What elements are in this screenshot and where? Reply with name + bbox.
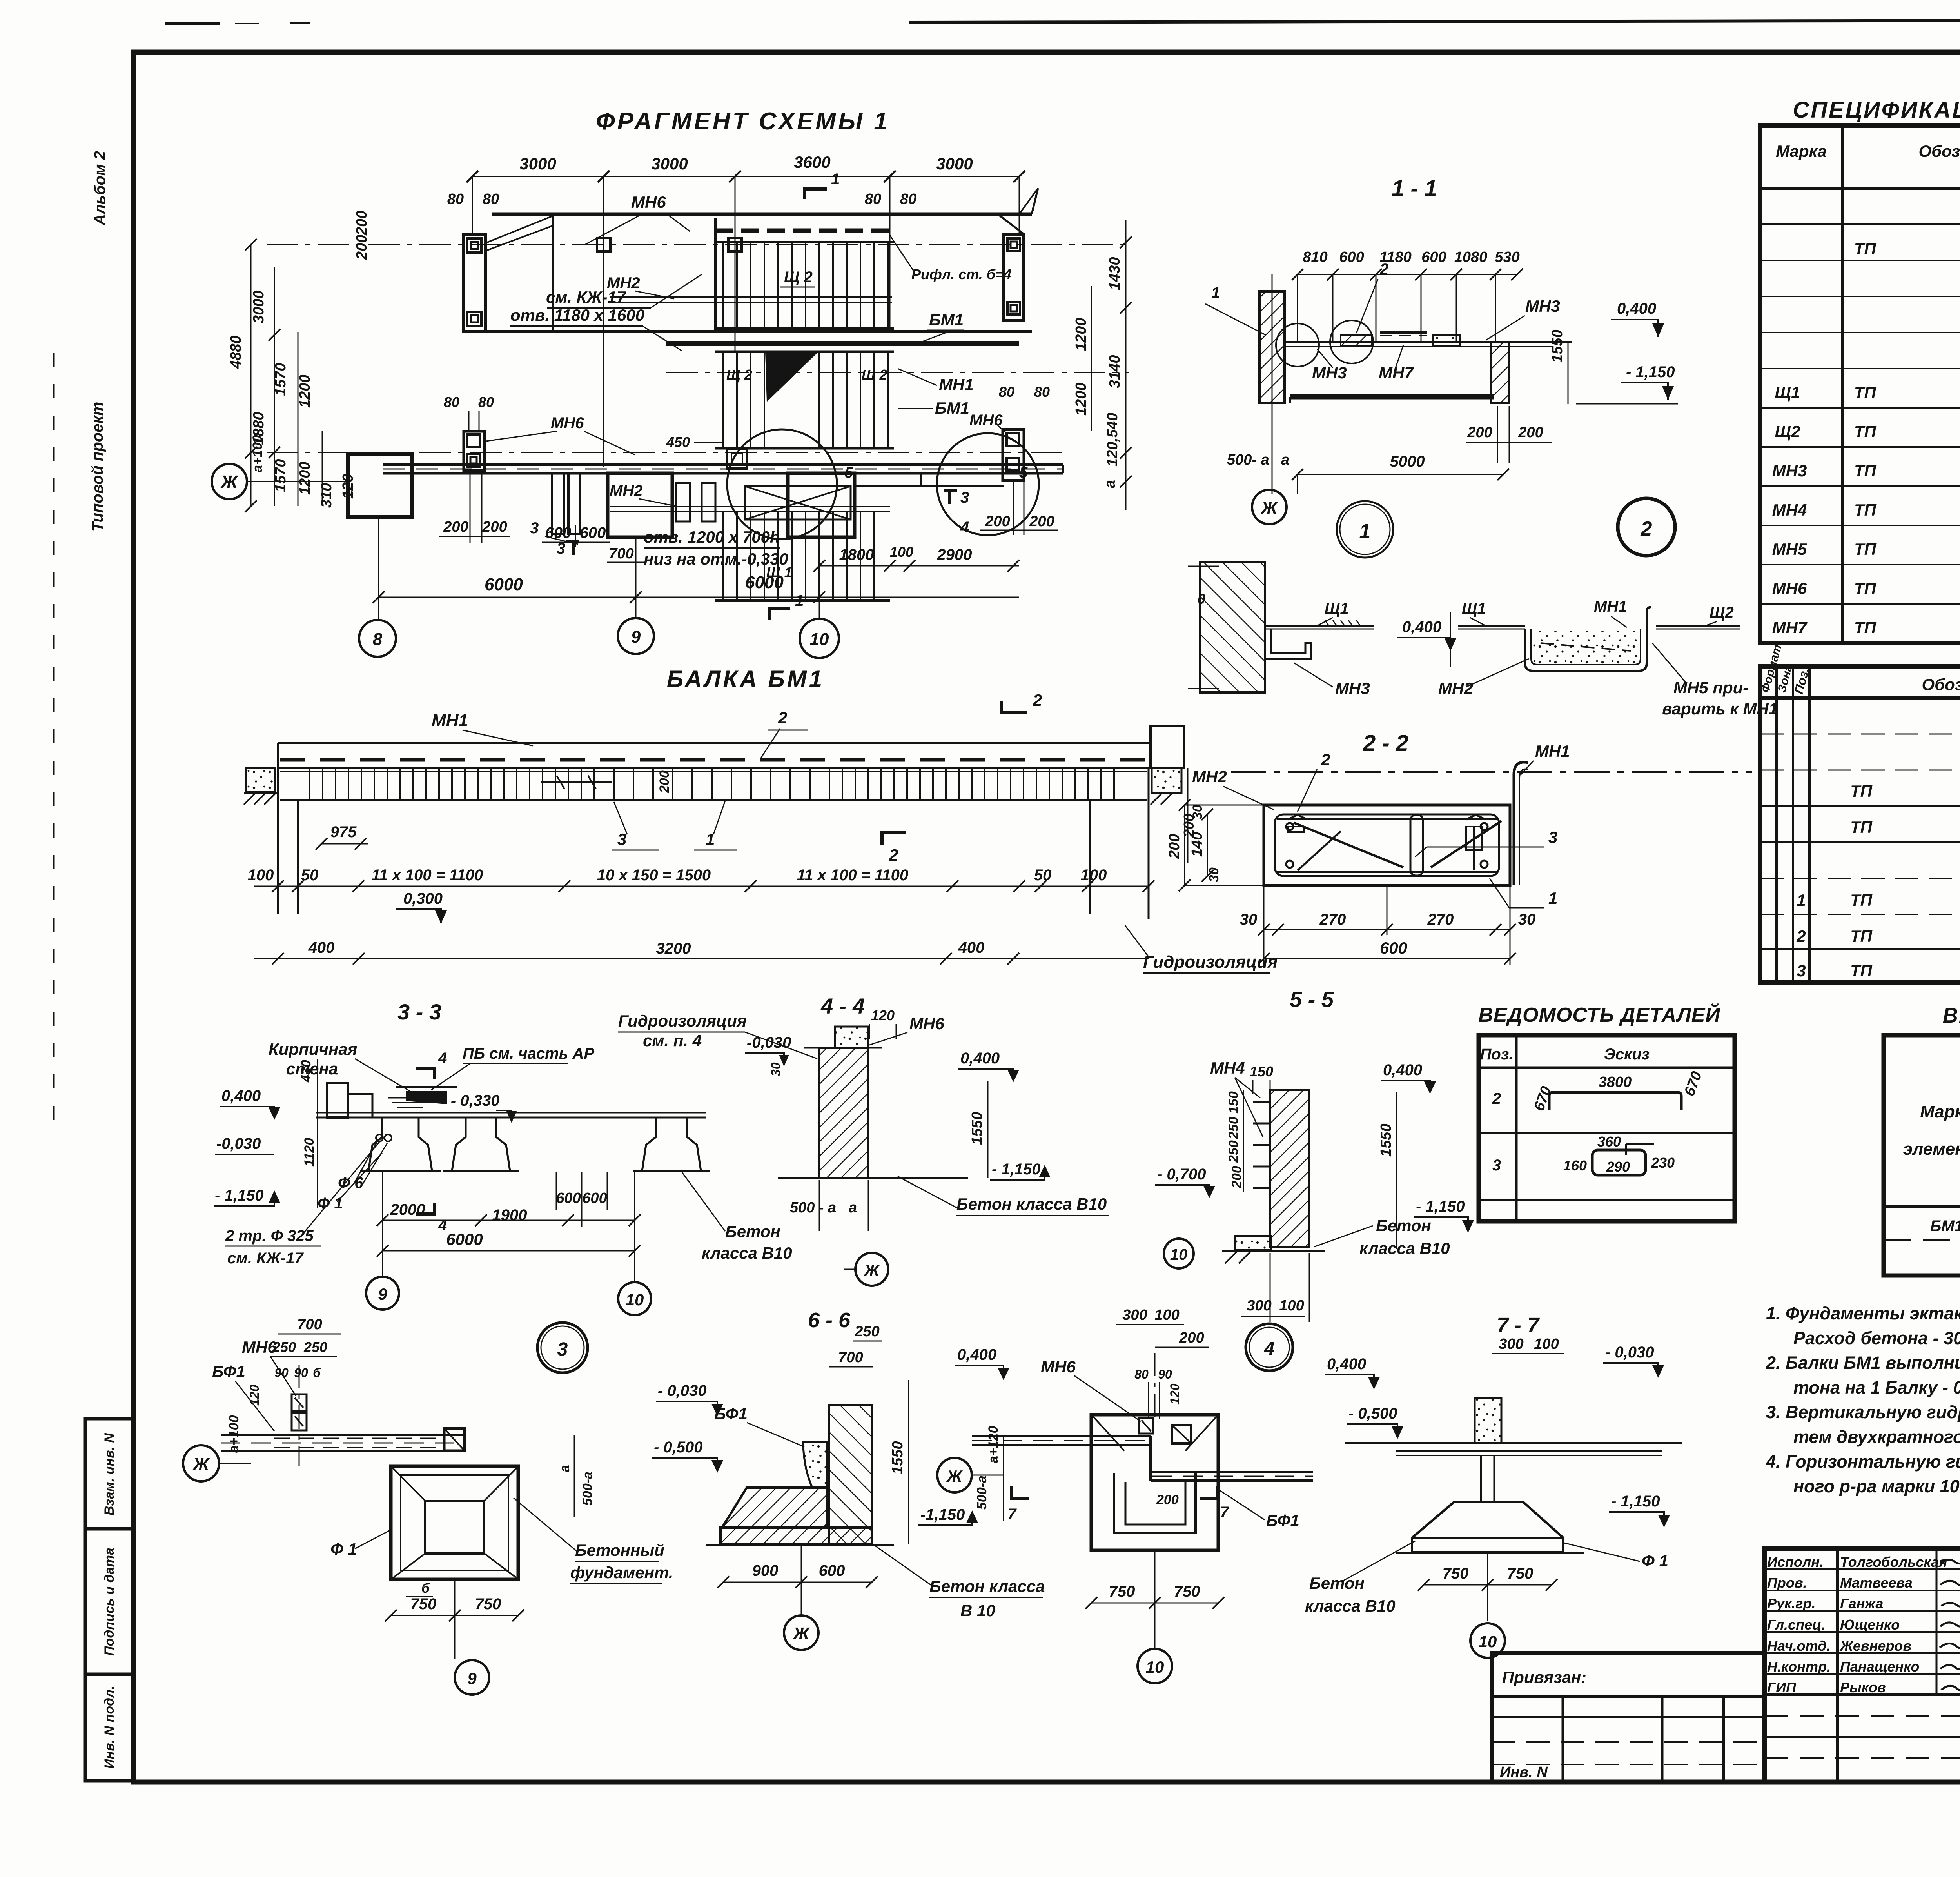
svg-text:Щ2: Щ2 xyxy=(1775,422,1800,441)
3-3 wall pieces above floor xyxy=(327,1083,348,1117)
svg-text:1: 1 xyxy=(795,592,804,609)
svg-text:2: 2 xyxy=(889,846,898,864)
svg-text:- 1,150: - 1,150 xyxy=(992,1161,1041,1178)
svg-text:тона на 1 Балку - 0,38 м³: тона на 1 Балку - 0,38 м³ xyxy=(1793,1377,1960,1397)
svg-text:ФРАГМЕНТ СХЕМЫ 1: ФРАГМЕНТ СХЕМЫ 1 xyxy=(596,108,890,135)
svg-text:ТП: ТП xyxy=(1850,782,1873,800)
svg-text:ТП: ТП xyxy=(1854,579,1877,598)
svg-text:ТП: ТП xyxy=(1850,961,1873,980)
axis Zh circle detail A xyxy=(183,1445,219,1481)
svg-text:б: б xyxy=(421,1581,430,1596)
svg-text:МН3: МН3 xyxy=(1312,363,1347,382)
right steps xyxy=(855,485,1004,487)
svg-text:Гл.спец.: Гл.спец. xyxy=(1767,1617,1825,1633)
svg-text:0,400: 0,400 xyxy=(1383,1061,1422,1079)
svg-text:100: 100 xyxy=(248,867,274,884)
svg-text:Толгобольская: Толгобольская xyxy=(1840,1554,1947,1570)
svg-text:200: 200 xyxy=(657,770,672,793)
anchor plates pair xyxy=(292,1394,307,1411)
svg-text:Н.контр.: Н.контр. xyxy=(1767,1659,1831,1675)
lower-right pier xyxy=(1003,429,1024,480)
svg-text:4: 4 xyxy=(438,1050,447,1067)
svg-text:6 - 6: 6 - 6 xyxy=(808,1308,851,1332)
svg-text:Обозначение: Обозначение xyxy=(1918,142,1960,160)
svg-text:класса В10: класса В10 xyxy=(702,1244,792,1262)
svg-text:100: 100 xyxy=(890,544,913,560)
foundation square detail A xyxy=(391,1466,518,1579)
svg-text:30: 30 xyxy=(1518,911,1536,928)
mid panels with wedge xyxy=(715,351,894,353)
parapet block xyxy=(835,1027,868,1048)
svg-text:Ж: Ж xyxy=(946,1467,963,1485)
svg-text:50: 50 xyxy=(1034,867,1052,884)
svg-text:360: 360 xyxy=(1597,1134,1621,1150)
svg-text:0,400: 0,400 xyxy=(957,1346,996,1363)
svg-text:10: 10 xyxy=(1170,1246,1188,1263)
svg-text:Бетон класса В10: Бетон класса В10 xyxy=(956,1195,1107,1213)
svg-text:ТП: ТП xyxy=(1854,618,1877,637)
detail 2 sketch: bent bar 3800 with 670 hooks xyxy=(1549,1092,1681,1110)
svg-text:Ганжа: Ганжа xyxy=(1840,1595,1883,1612)
left fold dashed line xyxy=(53,353,55,1137)
svg-text:2: 2 xyxy=(1796,927,1806,945)
svg-text:700: 700 xyxy=(609,545,633,562)
svg-text:0: 0 xyxy=(1198,591,1205,607)
svg-text:3000: 3000 xyxy=(519,154,556,173)
svg-text:430: 430 xyxy=(299,1060,314,1083)
svg-text:200: 200 xyxy=(482,519,507,535)
svg-text:300: 300 xyxy=(1122,1307,1147,1323)
dims 1800 100 2900 xyxy=(819,565,1019,567)
svg-text:9: 9 xyxy=(467,1669,477,1688)
detail circle 2 xyxy=(1618,498,1675,556)
svg-text:класса В10: класса В10 xyxy=(1359,1239,1450,1257)
floor band lower-right detail C xyxy=(1151,1471,1313,1473)
svg-text:Ж: Ж xyxy=(864,1261,880,1279)
section 7 cut marks xyxy=(1010,1486,1013,1500)
anchor plates detail C xyxy=(1139,1418,1153,1434)
svg-text:750: 750 xyxy=(1109,1583,1135,1600)
svg-text:9: 9 xyxy=(378,1285,387,1303)
svg-text:50: 50 xyxy=(301,867,319,884)
svg-text:750: 750 xyxy=(1507,1565,1534,1582)
svg-text:Ж: Ж xyxy=(1261,498,1278,518)
svg-text:Щ2: Щ2 xyxy=(1710,604,1734,621)
svg-text:100: 100 xyxy=(1081,867,1107,884)
dims 2000 / 1900 / 600 600 xyxy=(383,1220,635,1221)
axis circle 9 detail A xyxy=(454,1579,456,1659)
svg-text:Щ 2: Щ 2 xyxy=(784,269,813,286)
shelf with Shch1 xyxy=(1265,625,1374,627)
small stubs xyxy=(676,483,690,521)
svg-text:80: 80 xyxy=(483,191,499,207)
svg-text:600: 600 xyxy=(1339,249,1364,265)
beam cross-section box xyxy=(1264,805,1510,885)
beam axis dash-dot at y950 xyxy=(666,372,1129,373)
axis circle 10 detail D xyxy=(1487,1553,1488,1621)
axis circle 10 of 5-5 xyxy=(1164,1239,1194,1268)
svg-text:200: 200 xyxy=(354,211,370,236)
svg-text:ТП: ТП xyxy=(1850,927,1873,945)
column axis circles 8 9 10 xyxy=(378,517,379,620)
svg-text:ТП: ТП xyxy=(1854,540,1877,558)
svg-text:3: 3 xyxy=(960,489,969,506)
svg-text:0,400: 0,400 xyxy=(1402,618,1441,636)
svg-text:7: 7 xyxy=(1220,1504,1229,1521)
wall 4-4 hatched xyxy=(819,1048,868,1178)
svg-text:МН1: МН1 xyxy=(1594,598,1627,615)
middle axis dash-dot xyxy=(267,452,1066,453)
section cut 1 bottom xyxy=(768,607,771,620)
foundation square detail C xyxy=(1091,1415,1218,1550)
svg-text:МН3: МН3 xyxy=(1525,297,1560,315)
svg-text:900: 900 xyxy=(752,1562,779,1579)
beam top flange xyxy=(278,742,1149,744)
wall footing 5-5 xyxy=(1235,1236,1271,1250)
svg-text:МН2: МН2 xyxy=(607,274,640,292)
svg-text:1200: 1200 xyxy=(1073,318,1089,351)
svg-text:Жевнеров: Жевнеров xyxy=(1839,1638,1911,1654)
svg-text:класса В10: класса В10 xyxy=(1305,1597,1396,1615)
svg-text:МН6: МН6 xyxy=(631,193,666,211)
svg-text:Рыков: Рыков xyxy=(1840,1679,1886,1695)
svg-text:- 1,150: - 1,150 xyxy=(215,1187,264,1204)
svg-text:80: 80 xyxy=(900,191,916,207)
right pier xyxy=(1004,234,1024,320)
svg-text:Марка: Марка xyxy=(1920,1102,1960,1121)
svg-text:200: 200 xyxy=(1156,1492,1179,1507)
svg-text:80: 80 xyxy=(1034,384,1050,400)
svg-text:- 0,030: - 0,030 xyxy=(1605,1344,1654,1361)
svg-text:БФ1: БФ1 xyxy=(212,1362,245,1381)
svg-text:МН6: МН6 xyxy=(1041,1357,1076,1376)
svg-text:3200: 3200 xyxy=(656,940,691,957)
svg-text:1550: 1550 xyxy=(889,1441,906,1474)
svg-text:- 0,330: - 0,330 xyxy=(451,1092,500,1109)
svg-text:- 0,700: - 0,700 xyxy=(1157,1166,1206,1183)
svg-text:ТП: ТП xyxy=(1854,239,1877,258)
svg-text:МН6: МН6 xyxy=(1772,579,1807,598)
axis circle Zh 6-6 xyxy=(801,1545,802,1615)
svg-text:Ф 1: Ф 1 xyxy=(1642,1552,1668,1570)
footing 6-6 xyxy=(722,1488,827,1528)
opening rect with cross xyxy=(745,486,851,520)
svg-text:3000: 3000 xyxy=(651,154,688,173)
main stamp outline xyxy=(1765,1548,1960,1782)
svg-text:Ж: Ж xyxy=(793,1624,810,1643)
pedestal P2 xyxy=(452,1118,510,1171)
top rebar line xyxy=(280,771,1147,772)
lower-left pier xyxy=(464,431,485,471)
svg-text:2: 2 xyxy=(1321,750,1330,769)
svg-text:Расход бетона - 30,5 м³: Расход бетона - 30,5 м³ xyxy=(1793,1328,1960,1348)
Zh circle 4-4 xyxy=(855,1253,888,1286)
floor line 4-4 xyxy=(778,1177,968,1179)
svg-text:ТП: ТП xyxy=(1850,891,1873,909)
svg-text:2: 2 xyxy=(778,709,787,727)
svg-text:ГИП: ГИП xyxy=(1767,1679,1797,1695)
svg-text:750: 750 xyxy=(475,1595,501,1613)
svg-text:МН2: МН2 xyxy=(610,482,642,500)
svg-text:3 - 3: 3 - 3 xyxy=(397,999,441,1024)
svg-text:1430: 1430 xyxy=(1107,257,1123,290)
svg-text:90: 90 xyxy=(1158,1367,1172,1381)
svg-text:отв. 1200 х 700h: отв. 1200 х 700h xyxy=(644,528,780,546)
sidebar box: Инв. N подл. xyxy=(85,1674,133,1781)
BF1 wedge block xyxy=(803,1442,827,1488)
svg-text:1120: 1120 xyxy=(302,1138,317,1167)
concrete trough xyxy=(1525,629,1647,671)
750 750 dims detail C xyxy=(1091,1603,1218,1604)
svg-text:МН2: МН2 xyxy=(1192,767,1227,786)
svg-text:Бетонный: Бетонный xyxy=(575,1541,664,1559)
svg-text:120: 120 xyxy=(247,1385,261,1406)
svg-text:30: 30 xyxy=(1190,805,1205,819)
svg-text:Ж: Ж xyxy=(220,472,239,492)
svg-text:30: 30 xyxy=(769,1062,783,1076)
svg-text:5000: 5000 xyxy=(1390,453,1425,470)
svg-text:750: 750 xyxy=(410,1595,437,1613)
section cut 2 bottom xyxy=(880,831,884,845)
svg-text:140: 140 xyxy=(1189,832,1205,857)
svg-text:4: 4 xyxy=(1264,1339,1275,1359)
corner bar dots xyxy=(1286,823,1293,830)
svg-text:0,300: 0,300 xyxy=(403,890,443,907)
svg-text:ВЕДОМОСТЬ ДЕТАЛЕЙ: ВЕДОМОСТЬ ДЕТАЛЕЙ xyxy=(1478,1003,1720,1027)
svg-text:см. п. 4: см. п. 4 xyxy=(643,1031,702,1050)
svg-text:1 - 1: 1 - 1 xyxy=(1392,176,1437,201)
DETAIL 2 drawing xyxy=(1458,625,1525,627)
svg-text:4 - 4: 4 - 4 xyxy=(820,994,865,1018)
svg-text:200: 200 xyxy=(1029,513,1054,530)
privyazan table xyxy=(1492,1653,1765,1782)
right foundation xyxy=(788,473,855,537)
pedestal P3 xyxy=(642,1118,701,1171)
svg-text:3140: 3140 xyxy=(1107,355,1123,388)
MN1 bent plate right xyxy=(1514,762,1528,885)
left web leg xyxy=(277,768,279,914)
900 600 dims 6-6 xyxy=(723,1582,872,1583)
svg-text:ного р-ра марки 100 состава: ного р-ра марки 100 состава 1:2 с гидроф… xyxy=(1793,1476,1960,1496)
axis Zh circle detail C xyxy=(937,1458,972,1492)
svg-text:а: а xyxy=(1281,452,1289,468)
svg-text:ТП: ТП xyxy=(1850,818,1873,836)
svg-text:Рифл. ст. б=4: Рифл. ст. б=4 xyxy=(911,266,1011,282)
sidebar box: Взам. инв. N xyxy=(85,1419,133,1529)
svg-text:250: 250 xyxy=(1226,1140,1241,1163)
svg-text:310: 310 xyxy=(318,483,335,508)
svg-text:3: 3 xyxy=(1797,961,1806,980)
axis Zh circle xyxy=(212,464,247,499)
svg-text:100: 100 xyxy=(1534,1336,1559,1352)
svg-text:6000: 6000 xyxy=(745,573,784,592)
svg-text:тем двухкратного покрытия: тем двухкратного покрытия горячим битумо… xyxy=(1793,1427,1960,1447)
300 100 dims 5-5 xyxy=(1241,1316,1305,1317)
svg-text:б: б xyxy=(313,1366,321,1380)
svg-text:10: 10 xyxy=(1479,1632,1497,1651)
svg-text:1550: 1550 xyxy=(1378,1123,1394,1157)
small column square xyxy=(727,449,747,469)
svg-text:2000: 2000 xyxy=(390,1201,425,1218)
svg-text:270: 270 xyxy=(1427,911,1454,928)
svg-text:0,400: 0,400 xyxy=(1327,1356,1366,1373)
bottom rebar line xyxy=(280,799,1147,801)
svg-text:отв. 1180 х 1600: отв. 1180 х 1600 xyxy=(510,306,644,324)
MN1 plate dashed xyxy=(280,758,1147,762)
svg-text:МН6: МН6 xyxy=(242,1338,277,1356)
left foundation rectangle xyxy=(348,454,412,517)
svg-text:3: 3 xyxy=(617,830,626,849)
left brick wall hatched xyxy=(1259,291,1285,403)
section 3 cut marks xyxy=(572,541,575,555)
svg-text:450: 450 xyxy=(666,434,690,450)
svg-text:ВЕДОМОСТЬ РАСХОДА СТАЛИ НА: ВЕДОМОСТЬ РАСХОДА СТАЛИ НА ЭЛЕМЕНТ, КГ xyxy=(1943,1004,1960,1027)
svg-text:Нач.отд.: Нач.отд. xyxy=(1767,1638,1830,1654)
wall 6-6 hatched xyxy=(829,1405,872,1544)
svg-text:- 0,030: - 0,030 xyxy=(658,1382,707,1399)
svg-text:см. КЖ-17: см. КЖ-17 xyxy=(227,1250,304,1267)
scan top edge line xyxy=(909,20,1960,22)
svg-text:2. Балки БМ1 выполнить из: 2. Балки БМ1 выполнить из бетона класса … xyxy=(1766,1353,1960,1373)
mid bar cross ticks xyxy=(541,781,612,783)
svg-text:3600: 3600 xyxy=(794,153,830,171)
right rotated dims xyxy=(1102,257,1123,488)
svg-text:Пров.: Пров. xyxy=(1767,1575,1807,1591)
svg-text:90: 90 xyxy=(294,1366,308,1380)
mid stirrup xyxy=(1410,815,1423,876)
svg-text:МН6: МН6 xyxy=(969,412,1003,429)
svg-text:ТП: ТП xyxy=(1854,422,1877,441)
svg-text:Типовой проект: Типовой проект xyxy=(89,402,106,532)
svg-text:7 - 7: 7 - 7 xyxy=(1497,1314,1540,1337)
svg-text:300: 300 xyxy=(1247,1297,1271,1314)
svg-text:5 - 5: 5 - 5 xyxy=(1290,987,1334,1012)
svg-text:750: 750 xyxy=(1174,1583,1200,1600)
lower shield panels Shch1 xyxy=(715,599,890,602)
right pier hatched xyxy=(1491,342,1509,403)
svg-text:низ на отм.-0,330: низ на отм.-0,330 xyxy=(644,550,788,568)
floor lines 7-7 xyxy=(1345,1442,1682,1444)
F6 bar circles xyxy=(376,1134,383,1141)
svg-text:120: 120 xyxy=(871,1007,895,1023)
wall 5-5 hatched xyxy=(1270,1090,1309,1247)
mid foundation xyxy=(608,473,672,537)
svg-text:80: 80 xyxy=(1134,1367,1149,1381)
svg-text:Матвеева: Матвеева xyxy=(1840,1575,1913,1591)
left bearing stipple and ground xyxy=(246,768,275,792)
floor slab band xyxy=(383,463,1063,466)
svg-text:4: 4 xyxy=(438,1217,447,1234)
PB element dark wedge xyxy=(396,1086,457,1088)
svg-text:200: 200 xyxy=(1179,1330,1204,1346)
svg-text:Ф 1: Ф 1 xyxy=(330,1540,357,1558)
svg-text:Щ1: Щ1 xyxy=(1462,600,1486,617)
svg-text:МН3: МН3 xyxy=(1772,462,1807,480)
svg-text:-0,030: -0,030 xyxy=(747,1034,791,1051)
svg-text:Ж: Ж xyxy=(192,1455,210,1474)
header texts xyxy=(1903,1042,1960,1196)
svg-text:10: 10 xyxy=(1146,1658,1164,1676)
svg-text:2900: 2900 xyxy=(937,546,972,563)
axis dash line xyxy=(1231,771,1752,773)
svg-text:Исполн.: Исполн. xyxy=(1767,1554,1824,1570)
big detail circle right xyxy=(937,433,1039,535)
svg-text:- 1,150: - 1,150 xyxy=(1416,1198,1465,1215)
svg-text:МН2: МН2 xyxy=(1438,679,1473,698)
svg-text:- 1,150: - 1,150 xyxy=(1611,1493,1660,1510)
svg-text:600: 600 xyxy=(819,1562,845,1579)
column stub 7-7 xyxy=(1475,1398,1501,1443)
svg-text:1550: 1550 xyxy=(1549,329,1566,363)
svg-text:10 х 150 = 1500: 10 х 150 = 1500 xyxy=(597,867,711,884)
svg-text:270: 270 xyxy=(1319,911,1346,928)
svg-text:БФ1: БФ1 xyxy=(1266,1511,1299,1530)
svg-text:100: 100 xyxy=(1154,1307,1179,1323)
column stub detail C xyxy=(1172,1425,1191,1443)
svg-text:810: 810 xyxy=(1303,249,1327,265)
svg-text:4: 4 xyxy=(960,519,969,536)
svg-text:80: 80 xyxy=(999,384,1014,400)
svg-text:600: 600 xyxy=(580,524,606,541)
step xyxy=(1149,1436,1152,1481)
axis circles 9 and 10 of section 3-3 xyxy=(382,1172,383,1276)
svg-text:500-а: 500-а xyxy=(580,1472,595,1506)
svg-text:СПЕЦИФИКАЦИЯ ЭЛЕМЕНТОВ К ФРА: СПЕЦИФИКАЦИЯ ЭЛЕМЕНТОВ К ФРАГМЕНТУ СХЕМЫ… xyxy=(1793,97,1960,123)
svg-text:150: 150 xyxy=(1226,1091,1241,1114)
svg-text:120,540: 120,540 xyxy=(1104,413,1121,467)
svg-text:10: 10 xyxy=(626,1290,644,1309)
svg-text:3000: 3000 xyxy=(250,290,267,323)
svg-text:670: 670 xyxy=(1681,1069,1705,1098)
svg-text:ТП: ТП xyxy=(1854,383,1877,402)
svg-text:2: 2 xyxy=(1641,518,1652,540)
svg-text:Марка: Марка xyxy=(1776,142,1827,160)
Shch2 shelf right xyxy=(1656,625,1740,627)
MN1 hook at right xyxy=(1647,607,1651,629)
svg-text:3: 3 xyxy=(530,520,539,537)
svg-text:700: 700 xyxy=(838,1349,863,1366)
svg-text:Альбом 2: Альбом 2 xyxy=(91,151,109,226)
floor line xyxy=(1285,341,1572,343)
svg-text:250: 250 xyxy=(272,1339,296,1355)
top dimension line 3000/3000/3600/3000 xyxy=(472,176,1019,177)
svg-text:2 тр. Ф 325: 2 тр. Ф 325 xyxy=(225,1227,314,1245)
svg-text:Обозначение: Обозначение xyxy=(1922,675,1960,694)
spec rows xyxy=(1772,201,1960,637)
svg-text:1: 1 xyxy=(1359,520,1371,543)
svg-text:200: 200 xyxy=(1518,424,1543,441)
svg-text:1550: 1550 xyxy=(969,1112,985,1145)
svg-text:Гидроизоляция: Гидроизоляция xyxy=(1143,952,1278,972)
svg-text:30: 30 xyxy=(1240,911,1258,928)
diagonal bars xyxy=(1294,823,1403,867)
svg-text:1: 1 xyxy=(1548,889,1557,907)
svg-text:Щ 2: Щ 2 xyxy=(726,367,752,383)
svg-text:250: 250 xyxy=(303,1339,327,1355)
svg-text:500- а: 500- а xyxy=(1227,452,1269,468)
svg-text:80: 80 xyxy=(478,394,494,410)
right end upstand block xyxy=(1151,726,1184,768)
svg-text:600: 600 xyxy=(1421,249,1446,265)
svg-text:150: 150 xyxy=(1250,1063,1273,1079)
svg-text:400: 400 xyxy=(958,939,985,956)
svg-text:4880: 4880 xyxy=(228,335,244,369)
svg-text:160: 160 xyxy=(1563,1157,1587,1174)
svg-text:1880: 1880 xyxy=(250,412,267,445)
svg-text:МН3: МН3 xyxy=(1335,679,1370,698)
bottom small dims 200/200 xyxy=(439,536,510,537)
svg-text:1: 1 xyxy=(1211,284,1220,302)
